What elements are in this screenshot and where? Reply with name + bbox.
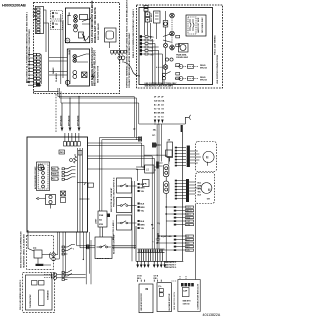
svg-text:INDUCER MOTOR RELAY SPDT: INDUCER MOTOR RELAY SPDT: [94, 50, 97, 86]
svg-text:THERMOSTAT: THERMOSTAT: [29, 294, 32, 308]
svg-text:24VAC: 24VAC: [52, 67, 55, 74]
svg-text:3A: 3A: [99, 219, 102, 222]
svg-text:P.L.: P.L.: [159, 286, 163, 288]
svg-text:[m]: [m]: [33, 248, 37, 250]
svg-text:EAC: EAC: [52, 168, 57, 171]
svg-text:BRN: BRN: [141, 224, 146, 226]
svg-text:BLOWER DOOR SW: BLOWER DOOR SW: [114, 235, 116, 254]
svg-text:SEE RATING PLATE FOR AMPS: SEE RATING PLATE FOR AMPS: [145, 84, 174, 87]
svg-text:OR FUSED DISC: OR FUSED DISC: [202, 17, 204, 33]
svg-text:CONNECT PER INSTALLATION INSTR: CONNECT PER INSTALLATION INSTRUCTION 24V…: [128, 32, 131, 88]
svg-text:SPLICE: SPLICE: [200, 79, 208, 81]
svg-text:BRN: BRN: [141, 207, 146, 209]
svg-text:IND: IND: [69, 12, 71, 16]
svg-text:FIELD 115V WIRING: FIELD 115V WIRING: [215, 35, 217, 55]
svg-text:C3): C3): [157, 223, 160, 225]
svg-text:PRESSURE SWITCH SPST N.O.: PRESSURE SWITCH SPST N.O.: [113, 177, 115, 207]
svg-text:SEE NOTES 115V: SEE NOTES 115V: [174, 291, 176, 310]
svg-text:CLASS II: CLASS II: [55, 73, 58, 82]
svg-text:M: M: [208, 188, 211, 192]
svg-text:LIMIT: LIMIT: [96, 218, 98, 224]
svg-text:FIELD 24V WIRING SEE NOTE 2: FIELD 24V WIRING SEE NOTE 2: [19, 279, 22, 310]
svg-text:IM: IM: [146, 288, 149, 291]
svg-text:HUMIDIFIER 24VAC 0.5A MAX SEE: HUMIDIFIER 24VAC 0.5A MAX SEE: [22, 233, 25, 268]
svg-text:24V GAS VALVE: 24V GAS VALVE: [97, 23, 100, 40]
svg-text:MED H: MED H: [186, 211, 192, 213]
svg-text:WHT: WHT: [186, 247, 190, 249]
svg-text:INDUCER MOTOR: INDUCER MOTOR: [141, 293, 143, 311]
svg-text:MANUAL SHUT OFF SEE NOTE: MANUAL SHUT OFF SEE NOTE: [94, 7, 97, 43]
svg-text:SUBBASE: SUBBASE: [47, 290, 50, 300]
svg-text:40FGA(3A): 40FGA(3A): [76, 115, 79, 126]
svg-text:40FGA(2A): 40FGA(2A): [59, 115, 62, 126]
svg-text:EQUIP GND: EQUIP GND: [161, 236, 172, 238]
svg-text:HUM: HUM: [52, 174, 57, 176]
svg-text:SPLICE: SPLICE: [200, 67, 208, 69]
svg-text:HACR CKT BKR: HACR CKT BKR: [197, 17, 200, 33]
svg-text:CONNECTION BOX 115V: CONNECTION BOX 115V: [197, 283, 199, 309]
svg-text:GY B: GY B: [137, 275, 142, 277]
svg-text:40113822A: 40113822A: [203, 313, 221, 317]
svg-text:H00XD200AB: H00XD200AB: [2, 2, 26, 7]
svg-text:SEE NT8: SEE NT8: [183, 301, 191, 303]
svg-text:CAP: CAP: [183, 290, 188, 293]
svg-text:FSE: FSE: [99, 215, 104, 217]
svg-text:COOL: COOL: [186, 207, 191, 209]
svg-text:YEL: YEL: [198, 192, 201, 194]
svg-text:COM: COM: [186, 225, 191, 227]
svg-text:FIELD 115V WIRING SEE NOTES NE: FIELD 115V WIRING SEE NOTES NEC CLASS 1: [132, 8, 135, 58]
svg-text:SEC2: SEC2: [150, 40, 155, 42]
svg-text:SEE NOTE 6 HSI: SEE NOTE 6 HSI: [98, 65, 100, 83]
svg-text:5Y1: 5Y1: [152, 135, 155, 137]
svg-text:M: M: [206, 155, 209, 159]
svg-text:USE COPPER CONDUCTORS: USE COPPER CONDUCTORS: [217, 54, 219, 84]
svg-text:115/24V 60HZ: 115/24V 60HZ: [176, 56, 189, 59]
svg-text:R8: R8: [151, 225, 153, 227]
svg-text:HEAT: HEAT: [186, 217, 190, 220]
svg-text:N: N: [66, 39, 68, 43]
svg-text:TWINNING TERMINAL CONNECTIONS: TWINNING TERMINAL CONNECTIONS (IF USED) …: [125, 0, 128, 88]
svg-text:BRN: BRN: [141, 187, 146, 189]
svg-text:e1: e1: [152, 228, 154, 230]
svg-text:PL1: PL1: [52, 179, 55, 181]
svg-text:GND: GND: [150, 54, 155, 56]
svg-text:LS: LS: [146, 169, 149, 172]
svg-text:SEE NOTE 9: SEE NOTE 9: [165, 267, 176, 269]
svg-text:BLK WHT: BLK WHT: [151, 12, 153, 22]
svg-text:MED L: MED L: [186, 214, 191, 216]
svg-text:BLOWER MOTOR: BLOWER MOTOR: [169, 293, 171, 310]
svg-text:40FGA(1A): 40FGA(1A): [67, 115, 70, 126]
svg-text:SEC1: SEC1: [150, 37, 155, 39]
svg-text:GY B: GY B: [154, 275, 159, 277]
svg-text:LOW: LOW: [186, 221, 190, 223]
svg-text:115V 60: 115V 60: [183, 304, 190, 306]
svg-text:ACCESSORIES 115VAC: ACCESSORIES 115VAC: [34, 166, 37, 189]
svg-text:SEE NOTES FIELD 24V WIRING HUM: SEE NOTES FIELD 24V WIRING HUM: [19, 231, 22, 268]
